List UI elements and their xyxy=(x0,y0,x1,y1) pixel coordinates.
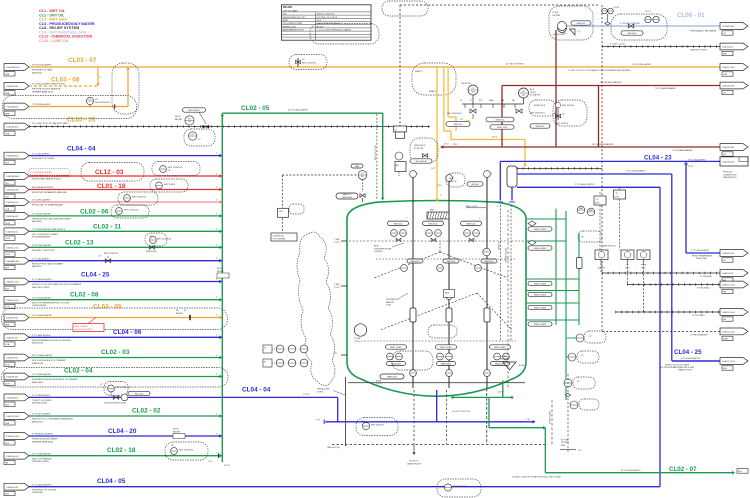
strainer box above vessel xyxy=(507,166,517,202)
svg-text:CL06 - 01: CL06 - 01 xyxy=(677,12,705,19)
green ladder verticals xyxy=(556,209,579,400)
svg-text:MB-DVB: MB-DVB xyxy=(217,271,224,273)
svg-text:WHIT-1(2B5): WHIT-1(2B5) xyxy=(440,347,452,349)
DPIT box on signal path xyxy=(278,204,305,217)
svg-text:D14000B-001: D14000B-001 xyxy=(6,398,19,400)
svg-text:SKIMMER (MBM-5303): SKIMMER (MBM-5303) xyxy=(32,91,53,93)
svg-text:SIZE: SIZE xyxy=(283,14,288,16)
dashed boundary left x400 xyxy=(399,5,401,127)
svg-text:20.2 PSIG / FS @ 302°F: 20.2 PSIG / FS @ 302°F xyxy=(317,17,339,19)
svg-text:MBCH-1(2B5: MBCH-1(2B5 xyxy=(534,295,547,297)
blanket gas regulator cloud xyxy=(549,6,593,40)
svg-text:4" PW-3003-42Q(PRO: 4" PW-3003-42Q(PRO xyxy=(32,434,53,436)
svg-text:24" PO-2604-4b(PRO: 24" PO-2604-4b(PRO xyxy=(621,470,641,472)
svg-text:(MN-1050): (MN-1050) xyxy=(32,221,42,223)
svg-text:FROM BULK OIL COOLER: FROM BULK OIL COOLER xyxy=(32,489,57,491)
pill below maroon cloud xyxy=(530,124,550,128)
svg-text:MACH-05: MACH-05 xyxy=(447,260,457,263)
connector CL06-01 out xyxy=(720,23,748,30)
svg-text:D14000H-002: D14000H-002 xyxy=(6,190,19,192)
svg-text:(TYP): (TYP) xyxy=(386,305,391,307)
svg-text:FROM LP FUEL GAS SCRUBBER: FROM LP FUEL GAS SCRUBBER xyxy=(32,262,63,265)
svg-text:FROM PRODUCED WATER/OIL: FROM PRODUCED WATER/OIL xyxy=(32,88,62,91)
svg-text:D14001-1-001: D14001-1-001 xyxy=(722,285,736,287)
svg-text:PBB: PBB xyxy=(5,113,10,115)
svg-text:MBCH-1(2B5: MBCH-1(2B5 xyxy=(534,248,547,250)
svg-text:WHIT 2013/03 SCL: WHIT 2013/03 SCL xyxy=(179,450,194,452)
svg-text:M&D: M&D xyxy=(395,165,400,167)
hatched line TO HO y273 xyxy=(602,273,720,278)
line D14002B-001 y=106.5 xyxy=(4,103,128,115)
feed dip tubes dashed inside vessel xyxy=(497,205,511,341)
line CL02 - 18 y=455.7 xyxy=(4,447,222,465)
svg-text:DRAIN (TP) FLUID: DRAIN (TP) FLUID xyxy=(678,369,693,372)
sump pump pill bottom left xyxy=(376,374,404,385)
svg-text:MBCH-01: MBCH-01 xyxy=(577,23,587,25)
internals circles y268 xyxy=(401,259,497,271)
top cluster instruments right xyxy=(484,88,546,129)
svg-text:BOTTOM: BOTTOM xyxy=(561,440,569,442)
svg-text:D14002-2-001: D14002-2-001 xyxy=(722,312,736,314)
svg-text:TO/M/CT OIL PUMPS: TO/M/CT OIL PUMPS xyxy=(32,400,52,402)
svg-text:2" PV-3260-4b(PRO: 2" PV-3260-4b(PRO xyxy=(32,104,51,106)
svg-text:(BMV-5204): (BMV-5204) xyxy=(32,421,43,423)
red callout box should be PV-3294 xyxy=(73,318,104,332)
small branch end CL02-18 xyxy=(208,453,230,467)
svg-text:ELB: ELB xyxy=(5,268,9,270)
svg-text:(SEE NOTE 15): (SEE NOTE 15) xyxy=(603,246,616,248)
line CL12 - 03 y=176.0 xyxy=(4,169,222,185)
svg-text:3" PL-3401-4b(PRO: 3" PL-3401-4b(PRO xyxy=(32,335,51,337)
svg-text:MBCH-05: MBCH-05 xyxy=(394,223,404,225)
svg-text:1/2": 1/2" xyxy=(589,336,592,338)
line CL03 - 07 y=67.0 xyxy=(4,57,721,76)
svg-text:WD DK: WD DK xyxy=(217,268,223,270)
svg-text:D14002b-00+: D14002b-00+ xyxy=(6,231,19,233)
svg-text:MBCH-1(2B5: MBCH-1(2B5 xyxy=(534,229,547,231)
svg-text:D14002Y-001: D14002Y-001 xyxy=(722,253,735,255)
svg-text:(MUM-5105): (MUM-5105) xyxy=(32,343,44,345)
svg-text:(3 ROWS): (3 ROWS) xyxy=(374,251,383,253)
svg-text:DOB: DOB xyxy=(5,383,10,385)
svg-text:DOB: DOB xyxy=(5,238,10,240)
svg-text:LOB: LOB xyxy=(5,209,10,211)
dashed boundary top xyxy=(400,4,599,6)
blue outlet from vessel bottom xyxy=(436,390,438,422)
cloud + bubble on bottom CL04-05 line xyxy=(437,479,481,497)
pill above vessel xyxy=(467,182,483,186)
cloud around CL03 riser junction xyxy=(412,63,456,95)
svg-text:OPTG PRESS & TEMP: OPTG PRESS & TEMP xyxy=(283,23,304,25)
svg-text:FROM INTERFACE SLUDGE FLOW PM(: FROM INTERFACE SLUDGE FLOW PM(U) xyxy=(32,339,71,342)
svg-text:2" W: 2" W xyxy=(526,419,530,421)
svg-text:CL04 - 20: CL04 - 20 xyxy=(108,428,137,435)
svg-text:WHIT 1(2009 B): WHIT 1(2009 B) xyxy=(562,105,575,107)
revision cloud CL12-03 xyxy=(81,163,144,182)
mist extractor xyxy=(427,206,486,224)
connector PW degasser xyxy=(720,328,748,335)
wire CL04-05 riser x660 xyxy=(659,187,661,486)
cloud left of cluster xyxy=(410,138,438,163)
svg-text:D14001-3-001: D14001-3-001 xyxy=(6,300,20,302)
svg-text:2" PV-3210-4b(PRO (SEE NOTE 4: 2" PV-3210-4b(PRO (SEE NOTE 4) xyxy=(32,84,65,86)
svg-text:(TYP 2): (TYP 2) xyxy=(303,394,310,396)
svg-text:DISTRIBUTOR: DISTRIBUTOR xyxy=(386,299,399,301)
vortex breaker xyxy=(500,356,525,370)
svg-text:2" PO-2000-2b(PRO: 2" PO-2000-2b(PRO xyxy=(32,214,51,216)
svg-text:RECYCLE PREMIUM EXPORT COOLER: RECYCLE PREMIUM EXPORT COOLER xyxy=(32,302,70,304)
svg-text:1/2": 1/2" xyxy=(198,139,201,141)
line CL04 - 06 y=337.3 xyxy=(4,329,222,347)
drain drops below vessel xyxy=(407,390,446,466)
svg-text:D14003B-005: D14003B-005 xyxy=(6,127,19,129)
svg-text:D14000S-001: D14000S-001 xyxy=(722,162,735,164)
svg-text:16" Q: 16" Q xyxy=(444,144,449,146)
line CL02 - 03 y=357.5 xyxy=(4,349,222,367)
svg-text:WHIT 2(1300 B): WHIT 2(1300 B) xyxy=(556,123,569,125)
svg-text:(TYP 3): (TYP 3) xyxy=(376,383,382,385)
svg-text:MBM-02B5: MBM-02B5 xyxy=(441,364,452,366)
gauge bubbles chain right of vessel xyxy=(564,331,606,410)
line CL02 - 11 y=231.3 xyxy=(4,223,222,240)
line CL02-05 xyxy=(221,105,385,201)
svg-text:RING: RING xyxy=(561,445,566,447)
svg-text:CL20 - LUBE OIL: CL20 - LUBE OIL xyxy=(39,39,70,43)
svg-text:OF SKIRT: OF SKIRT xyxy=(561,442,569,444)
svg-text:TO LP&L 1 W 2-PG O 1ST STAGE S: TO LP&L 1 W 2-PG O 1ST STAGE SUCTION SCR… xyxy=(568,69,631,72)
svg-text:2(B3) NOTE 4): 2(B3) NOTE 4) xyxy=(414,145,426,147)
relief valve top xyxy=(563,29,581,35)
cloud above vessel left nozzle xyxy=(446,173,465,187)
svg-text:24" x 6.05" PL/31TL 05L: 24" x 6.05" PL/31TL 05L xyxy=(452,411,470,413)
svg-text:(CHKW 1040) (WHIT 1025B): (CHKW 1040) (WHIT 1025B) xyxy=(104,403,126,405)
top cluster instruments left xyxy=(446,83,484,126)
red spec pill CL12-03 xyxy=(28,169,70,175)
svg-text:(SEE NOTE 14): (SEE NOTE 14) xyxy=(327,447,340,449)
svg-text:D14001w-001: D14001w-001 xyxy=(6,456,19,458)
dashed line TO PW DEGASSER y331.4 xyxy=(602,331,722,336)
svg-text:D14003B-00B: D14003B-00B xyxy=(6,176,19,178)
svg-text:WD-100: WD-100 xyxy=(471,184,479,186)
svg-text:2'-0": 2'-0" xyxy=(578,450,582,452)
svg-text:VDBM 06/45L: VDBM 06/45L xyxy=(342,197,353,199)
svg-text:4" PO-3002-4b2(PRO: 4" PO-3002-4b2(PRO xyxy=(32,315,53,317)
cloud below CL03-20 valve xyxy=(184,129,215,146)
svg-text:3" PO-3005-4b(PRO: 3" PO-3005-4b(PRO xyxy=(32,245,51,247)
svg-text:FROM TEST SEPARATOR (MBD-01B): FROM TEST SEPARATOR (MBD-01B) xyxy=(32,191,67,194)
svg-text:should be PV-3294: should be PV-3294 xyxy=(75,329,93,331)
internals row pills y224 xyxy=(388,218,482,226)
svg-text:CL02 - 02: CL02 - 02 xyxy=(132,407,161,414)
datum line right of skirt xyxy=(550,400,553,445)
internals circles y240 xyxy=(391,230,480,242)
svg-text:PBB: PBB xyxy=(5,93,10,95)
svg-text:TO HO (9&M+): TO HO (9&M+) xyxy=(697,288,710,290)
svg-text:WHIT 2013/03 SCL: WHIT 2013/03 SCL xyxy=(302,63,317,65)
svg-text:MBCH-1(2B5: MBCH-1(2B5 xyxy=(534,308,547,310)
svg-text:3/4" Q: 3/4" Q xyxy=(492,137,498,139)
svg-text:PWB: PWB xyxy=(723,339,728,341)
svg-text:MB-3001: MB-3001 xyxy=(283,7,293,9)
svg-text:D14002F-001: D14002F-001 xyxy=(722,147,735,149)
svg-text:FROM WET OIL TANK: FROM WET OIL TANK xyxy=(32,69,53,72)
svg-text:D14000F-001: D14000F-001 xyxy=(6,318,19,320)
svg-text:10" (LIGHT SLOP OIL PA) M-B TU: 10" (LIGHT SLOP OIL PA) M-B TURBO xyxy=(32,122,69,125)
vessel MB-3001 outline xyxy=(347,201,526,397)
svg-text:4" PO-3006-4b(PRO: 4" PO-3006-4b(PRO xyxy=(32,453,51,455)
line CL03 - 08 y=86.0 xyxy=(4,77,98,96)
svg-text:2" W(B: 2" W(B xyxy=(334,239,340,241)
clouds inside vessel bottom xyxy=(392,351,433,370)
svg-text:TO PW DEGASSER: TO PW DEGASSER xyxy=(690,333,708,336)
svg-text:MELL-0010: MELL-0010 xyxy=(466,206,478,208)
svg-text:MAINTENANCE NOTICE: MAINTENANCE NOTICE xyxy=(283,29,305,32)
cloud CL02-18 xyxy=(165,442,208,460)
green links to chain xyxy=(564,338,576,383)
svg-text:WHIT 2013/03 SCL: WHIT 2013/03 SCL xyxy=(95,102,111,104)
internal stand 1 x413 xyxy=(410,171,418,388)
line CL03 - 05 y=317.5 xyxy=(4,304,222,327)
texts near CL03-05 right xyxy=(176,310,187,315)
skirt right edge xyxy=(486,389,488,445)
svg-text:SUCTION SCRUBBERS (M&P-3801 &: SUCTION SCRUBBERS (M&P-3801 & 3802) xyxy=(660,367,694,369)
svg-text:FROM WET OIL PUMPS: FROM WET OIL PUMPS xyxy=(32,158,55,160)
svg-text:MBCH-1(2B5: MBCH-1(2B5 xyxy=(534,324,547,326)
svg-text:WHIT-1(2B5): WHIT-1(2B5) xyxy=(494,347,506,349)
nozzle pills right side xyxy=(528,227,552,326)
svg-text:2" GF-2414-C3Q(PRO: 2" GF-2414-C3Q(PRO xyxy=(620,23,640,25)
green valve rect xyxy=(577,258,583,269)
level dashed LLL xyxy=(361,340,516,342)
svg-text:FROM X PRESERVATION: FROM X PRESERVATION xyxy=(692,255,713,258)
svg-text:TO LP FLARE HEADER: TO LP FLARE HEADER xyxy=(672,149,693,152)
svg-text:D14003-3-003: D14003-3-003 xyxy=(6,416,20,418)
svg-text:2(2) NOTE 4): 2(2) NOTE 4) xyxy=(461,83,472,85)
valve station on CL03-20 xyxy=(183,108,210,129)
svg-text:PIC PY: PIC PY xyxy=(645,11,652,13)
svg-text:CL04 - 06: CL04 - 06 xyxy=(113,329,142,336)
svg-text:ELB: ELB xyxy=(5,443,9,445)
inlet distributor dashed line xyxy=(349,240,524,242)
line CL08 relief upper xyxy=(502,81,720,90)
svg-text:D14003-2-00+: D14003-2-00+ xyxy=(6,247,20,249)
internal stand 3 x487 xyxy=(484,171,492,388)
svg-text:SKIMMER (MBM-5303): SKIMMER (MBM-5303) xyxy=(32,441,53,443)
svg-text:MBCH-0B05: MBCH-0B05 xyxy=(188,110,200,112)
connector pig trap 2 xyxy=(720,309,748,316)
svg-text:1-1/2" W: 1-1/2" W xyxy=(497,392,504,394)
svg-text:CL01 - 18: CL01 - 18 xyxy=(97,183,126,190)
svg-text:PBB: PBB xyxy=(5,324,10,326)
svg-text:24" PO-3602-4b(PRO: 24" PO-3602-4b(PRO xyxy=(288,110,309,112)
svg-text:MBCH-05: MBCH-05 xyxy=(536,126,546,128)
line blue to preservation connector y253 xyxy=(684,161,720,260)
svg-text:D14000B-0001: D14000B-0001 xyxy=(6,67,20,69)
svg-text:(TYP 2): (TYP 2) xyxy=(354,341,361,343)
line CL02 - 13 y=247.3 xyxy=(4,239,222,256)
svg-text:TANK (MB-5702): TANK (MB-5702) xyxy=(723,176,737,179)
svg-text:CL03 - 05: CL03 - 05 xyxy=(93,304,122,311)
svg-text:WHIT 1025B SCL: WHIT 1025B SCL xyxy=(453,486,466,488)
svg-text:TO HO (9&M): TO HO (9&M) xyxy=(700,276,712,278)
svg-text:WHIT 2013/03 SCL: WHIT 2013/03 SCL xyxy=(168,167,183,169)
svg-text:LOA: LOA xyxy=(5,343,10,346)
connector CL04-23 in (box) xyxy=(720,157,748,166)
skirt bottom dashed xyxy=(332,444,545,446)
svg-text:DRY OIL FROM KILL TANKS: DRY OIL FROM KILL TANKS xyxy=(32,233,59,236)
svg-text:D14000F-001: D14000F-001 xyxy=(6,358,19,360)
valve tick on CL03-05 xyxy=(189,315,191,320)
svg-text:MBCH-1(2B5: MBCH-1(2B5 xyxy=(534,284,547,286)
svg-text:DESIGN PRESS INT / EXT: DESIGN PRESS INT / EXT xyxy=(283,17,307,19)
equipment data table MB-3001 xyxy=(282,5,372,40)
svg-text:CL02 - 03: CL02 - 03 xyxy=(101,349,130,356)
svg-text:WRAP 12: WRAP 12 xyxy=(415,70,422,73)
line blue y174 xyxy=(517,171,672,362)
misc top cluster ticks xyxy=(431,119,470,187)
svg-text:D14002S-001: D14002S-001 xyxy=(722,86,735,88)
cloud right of top cluster xyxy=(529,100,556,116)
svg-text:MB-TMB: MB-TMB xyxy=(173,431,181,433)
svg-text:MDMT: MDMT xyxy=(283,20,290,22)
wire CL03-07 branch vertical x98 xyxy=(96,67,102,86)
svg-text:1(2009 B): 1(2009 B) xyxy=(449,181,457,183)
svg-text:2" PL-3404-42Q(PRO: 2" PL-3404-42Q(PRO xyxy=(575,184,595,186)
svg-text:CL02 - 04: CL02 - 04 xyxy=(64,367,93,374)
line CL02 - 08 y=299.7 xyxy=(4,291,222,308)
svg-text:CL02 - 08: CL02 - 08 xyxy=(70,291,99,298)
box TO PIG TRAP D14002F-001 xyxy=(271,233,297,241)
svg-text:D14001-7-00+: D14001-7-00+ xyxy=(722,67,736,69)
svg-text:DESIGN CODE: DESIGN CODE xyxy=(283,26,297,28)
green ladder rungs xyxy=(526,219,579,320)
svg-text:BREAKER: BREAKER xyxy=(500,358,509,361)
svg-text:(MBM-3004): (MBM-3004) xyxy=(32,363,43,365)
bowtie valve on blue y260.7 xyxy=(98,253,119,263)
cloud + bubble on CL04-04 center xyxy=(356,418,398,436)
svg-text:MBCH-05: MBCH-05 xyxy=(496,120,506,122)
svg-text:D14001b-001: D14001b-001 xyxy=(6,216,19,218)
svg-text:3" PO-3003-4b(PRO: 3" PO-3003-4b(PRO xyxy=(32,374,51,376)
svg-text:CL04 - 04: CL04 - 04 xyxy=(67,146,96,153)
line CL08 relief lower xyxy=(441,143,723,152)
svg-text:(TYP 3): (TYP 3) xyxy=(317,391,324,393)
svg-text:INTERFACE SLUDGE FROM BULK OIL: INTERFACE SLUDGE FROM BULK OIL TREATER xyxy=(32,378,78,381)
svg-text:CL04 - 05: CL04 - 05 xyxy=(97,478,126,485)
svg-text:D14002H-00+: D14002H-00+ xyxy=(6,202,19,204)
svg-text:WHIT-1(2B5): WHIT-1(2B5) xyxy=(390,347,402,349)
svg-text:FROM BLANKET GAS HEADER: FROM BLANKET GAS HEADER xyxy=(690,30,717,33)
svg-text:CL03 - 08: CL03 - 08 xyxy=(51,77,80,84)
cloud on pink line xyxy=(118,192,158,205)
green outlet from vessel bottom xyxy=(451,381,546,473)
wire CL03 risers top center xyxy=(435,67,456,202)
svg-text:DRAIN TROUGH: DRAIN TROUGH xyxy=(407,463,422,466)
svg-text:TO PIG SENSR: TO PIG SENSR xyxy=(273,239,286,241)
svg-text:1200: 1200 xyxy=(471,91,475,93)
tall cloud around CL03 riser x128 xyxy=(112,63,139,114)
svg-text:CL04 - 25: CL04 - 25 xyxy=(81,271,110,278)
svg-text:(TYP 2): (TYP 2) xyxy=(334,287,340,289)
svg-text:16" DVF-4HD-02A(P)RC: 16" DVF-4HD-02A(P)RC xyxy=(592,143,614,146)
vent access label xyxy=(317,388,345,396)
svg-text:C: 2 & 1/2: 100% RF/NDE (LR CO: C: 2 & 1/2: 100% RF/NDE (LR COATED) xyxy=(317,29,352,32)
vessel bottom tangent line xyxy=(348,382,525,384)
cloud on CL06 line xyxy=(611,11,667,40)
svg-text:2" PL-3475-4b(PRO: 2" PL-3475-4b(PRO xyxy=(691,250,709,252)
svg-text:1/2": 1/2" xyxy=(302,59,305,61)
cloud at dashed boundary corner xyxy=(382,1,428,16)
dashed drop near skirt right xyxy=(565,374,570,452)
tall revision cloud left of vessel xyxy=(297,232,335,385)
svg-text:PBB: PBB xyxy=(5,133,10,135)
svg-text:FROM LUBE OIL DRAIN HEADER: FROM LUBE OIL DRAIN HEADER xyxy=(32,204,64,207)
svg-text:FROM IA-CT UNIT PIG'S: FROM IA-CT UNIT PIG'S xyxy=(32,249,55,252)
svg-text:4" PL-3426-4b2(PRO: 4" PL-3426-4b2(PRO xyxy=(32,279,52,281)
svg-text:MACH-05: MACH-05 xyxy=(485,260,495,263)
line CL04-25 right xyxy=(660,349,721,372)
line D1400BB-00B y=260.7 xyxy=(4,257,222,269)
svg-text:DOB: DOB xyxy=(5,254,10,256)
svg-text:1/2": 1/2" xyxy=(100,384,103,386)
svg-text:MBM-0225: MBM-0225 xyxy=(387,377,398,379)
cloud with valve on CL03-07 line xyxy=(289,55,327,70)
connector TO HO 1 xyxy=(720,270,748,277)
svg-text:D14012-001: D14012-001 xyxy=(722,47,734,49)
svg-text:16" DVF-4HD-02A(P)RC: 16" DVF-4HD-02A(P)RC xyxy=(600,81,622,84)
left shell nozzles xyxy=(333,239,347,355)
svg-text:1F: 1F xyxy=(416,173,418,175)
svg-text:(14010/0020B2): (14010/0020B2) xyxy=(32,305,47,307)
svg-text:2" PL-34TL-4b(PRO: 2" PL-34TL-4b(PRO xyxy=(32,414,51,416)
WD DK block near CL03-20 line xyxy=(175,116,183,121)
strike marks on CL12-03 line xyxy=(30,175,70,177)
svg-text:10" PV-1200-4b(PRO: 10" PV-1200-4b(PRO xyxy=(32,65,52,67)
svg-text:THE&GOUT OWTR: THE&GOUT OWTR xyxy=(690,50,707,52)
svg-text:D14000L-002: D14000L-002 xyxy=(6,487,19,489)
CL04-23 connector box texts xyxy=(723,172,738,180)
svg-text:4" PL-3426-4b(PRO: 4" PL-3426-4b(PRO xyxy=(32,395,51,397)
MAG bubbles cluster xyxy=(577,206,602,242)
dashed boundary right x602 xyxy=(601,5,603,331)
svg-text:1/2": 1/2" xyxy=(361,421,364,423)
legend line-class list xyxy=(39,9,95,43)
svg-text:ROUTE TO: ROUTE TO xyxy=(409,461,419,463)
wire relief riser x598.5 xyxy=(598,86,600,148)
svg-text:1/2": 1/2" xyxy=(149,236,152,238)
svg-text:WHIT 2013/03 SCL: WHIT 2013/03 SCL xyxy=(104,253,119,255)
svg-text:CL02 - 07: CL02 - 07 xyxy=(669,466,697,473)
svg-text:WHIT 2013/03 SCL: WHIT 2013/03 SCL xyxy=(157,239,172,241)
svg-text:WHIT: WHIT xyxy=(449,178,453,180)
svg-text:(DO NOT POCKET): (DO NOT POCKET) xyxy=(506,64,524,66)
svg-text:W0-TWF-B-(3-1)B: W0-TWF-B-(3-1)B xyxy=(506,247,508,262)
svg-text:OIL: OIL xyxy=(600,262,603,264)
svg-text:MBCH-05: MBCH-05 xyxy=(454,124,464,126)
valve on CL03-20 line xyxy=(114,104,116,109)
svg-text:PLATE (P304): PLATE (P304) xyxy=(696,257,707,260)
svg-text:(14010/006): (14010/006) xyxy=(32,492,43,494)
cloud on CL02-13 xyxy=(145,233,172,253)
svg-text:24" MW: 24" MW xyxy=(354,338,361,340)
svg-text:D1400BB-00B: D1400BB-00B xyxy=(6,261,19,263)
svg-text:D14000B-001: D14000B-001 xyxy=(6,156,19,158)
svg-text:ELB: ELB xyxy=(5,404,9,406)
connector relief upper out xyxy=(720,82,748,89)
line CL04 - 25 y=281.5 xyxy=(4,271,222,290)
svg-text:SCHOEPENTOETER: SCHOEPENTOETER xyxy=(374,248,392,250)
svg-text:4" PL-3443-42Q(PRO: 4" PL-3443-42Q(PRO xyxy=(626,171,646,173)
